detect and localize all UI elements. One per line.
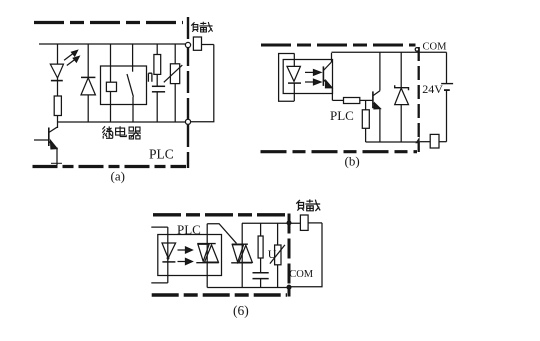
label 负载 (c)	[296, 199, 320, 211]
relay coil square (a)	[106, 82, 116, 91]
snubber resistor R2 (a)	[154, 44, 161, 86]
opto triac TR1 (c)	[196, 224, 219, 288]
transistor Q1 (a)	[34, 127, 62, 165]
wire top bus (b)	[332, 51, 447, 53]
transistor Q2 (b)	[373, 52, 380, 142]
varistor RV1 (a)	[164, 44, 183, 122]
input stub top (c)	[151, 226, 168, 228]
terminal hook (a)	[148, 73, 152, 82]
PLC rail top dashed (b)	[261, 44, 416, 47]
optocoupler box (b)	[283, 60, 332, 94]
pulldown resistor R4 (b)	[362, 100, 369, 142]
load loop wire (a)	[191, 45, 214, 122]
PLC rail bottom dashed (a)	[33, 165, 187, 168]
wire top bus (c)	[242, 222, 300, 224]
PLC boundary vertical dashed (a)	[187, 17, 189, 168]
wire bottom bus (c)	[207, 287, 287, 289]
main triac TR2 (c)	[231, 223, 252, 287]
relay coil branch wire (a)	[110, 44, 112, 122]
load boundary vertical dashed (c)	[288, 214, 291, 297]
load box (a)	[193, 37, 213, 50]
svg-text:(b): (b)	[345, 154, 360, 169]
opto LED (c)	[162, 227, 176, 283]
svg-text:U: U	[268, 247, 277, 261]
svg-text:COM: COM	[423, 42, 448, 53]
svg-text:24V: 24V	[422, 82, 443, 96]
resistor R1 (a)	[54, 96, 61, 128]
gate wire (c)	[207, 224, 236, 244]
node terminal bottom (c)	[287, 285, 291, 289]
opto phototransistor (b)	[323, 53, 332, 101]
svg-text:(6): (6)	[233, 303, 249, 318]
svg-text:(a): (a)	[111, 169, 125, 184]
load box (b)	[420, 134, 447, 148]
PLC rail top dashed (a)	[34, 21, 183, 24]
label 继电器 (a)	[102, 126, 141, 139]
opto LED (b)	[287, 54, 301, 102]
svg-text:PLC: PLC	[149, 147, 174, 162]
node terminal top (b)	[415, 48, 419, 52]
load loop wire (c)	[291, 223, 322, 287]
relay contact (a)	[127, 44, 133, 122]
label 负载 (a)	[191, 22, 212, 32]
zener diode D3 (b)	[395, 52, 409, 142]
snubber resistor R5 (c)	[258, 223, 263, 273]
PLC rail bottom dashed (c)	[152, 293, 287, 296]
LED D1 with emission arrows (a)	[50, 44, 79, 96]
svg-text:COM: COM	[289, 269, 314, 280]
node terminal bottom (b)	[415, 137, 419, 143]
base resistor R3 (b)	[332, 98, 373, 104]
node terminal top (c)	[287, 221, 291, 225]
wire bottom bus (b)	[366, 141, 417, 143]
varistor RV2 (c)	[270, 223, 285, 287]
PLC rail bottom dashed (b)	[261, 150, 418, 153]
opto light arrows (c)	[178, 247, 193, 265]
svg-text:PLC: PLC	[177, 222, 201, 237]
wire bottom bus (a)	[57, 121, 186, 123]
snubber capacitor C2 (c)	[253, 273, 269, 288]
COM boundary vertical dashed (b)	[418, 47, 420, 152]
relay box (a)	[101, 66, 147, 105]
wire top bus (a)	[39, 43, 186, 45]
battery 24V (b)	[441, 52, 453, 141]
input stub bottom (c)	[151, 282, 168, 284]
load box (c)	[300, 215, 322, 230]
optocoupler box (c)	[158, 235, 222, 276]
svg-text:PLC: PLC	[330, 108, 354, 123]
input loop wires (b)	[279, 54, 295, 102]
node terminal top (a)	[185, 42, 190, 47]
opto light arrows (b)	[305, 70, 321, 85]
diode D2 (a)	[81, 44, 95, 122]
snubber capacitor C1 (a)	[152, 86, 165, 122]
node terminal bottom (a)	[185, 119, 190, 124]
PLC rail top dashed (c)	[153, 213, 286, 216]
